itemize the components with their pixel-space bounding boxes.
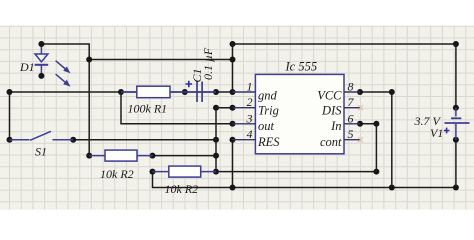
svg-text:Trig: Trig (258, 104, 279, 118)
svg-text:Ic 555: Ic 555 (285, 60, 318, 74)
no-connect mark pin 5 (358, 137, 363, 142)
IC right pin stubs 8-5 (344, 92, 360, 140)
wire: pin 6 In down to y=171.6 (357, 121, 379, 172)
wire: vertical x=232.5 from top rail to pin 1 (230, 44, 236, 92)
wire: pin 2 Trig stub wire (216, 105, 236, 111)
wire: pin 4 RES down to bottom rail (230, 137, 236, 188)
wire: battery bottom vertical (453, 137, 459, 188)
svg-text:6: 6 (348, 111, 354, 125)
svg-text:100k R1: 100k R1 (128, 102, 168, 116)
battery V1 plates (445, 108, 470, 140)
wire: left vertical x=9.5 down to S1 (7, 92, 13, 143)
svg-text:0.1 µF: 0.1 µF (201, 47, 215, 80)
capacitor C1 0.1uF (185, 82, 216, 103)
battery plus sign (444, 128, 450, 134)
svg-text:VCC: VCC (317, 89, 342, 103)
svg-text:RES: RES (257, 135, 280, 149)
diode D1 (LED) (35, 44, 49, 76)
switch S1 (10, 131, 74, 140)
C1 plus sign (186, 81, 193, 88)
svg-text:2: 2 (247, 95, 253, 109)
svg-text:10k R2: 10k R2 (165, 182, 199, 196)
svg-text:8: 8 (348, 80, 354, 94)
wire: vertical x=216 (trig net) (213, 105, 219, 175)
svg-text:V1: V1 (430, 126, 443, 140)
svg-text:5: 5 (348, 127, 354, 141)
wire: x=89.2 to pin-1 vertical at y=59.5 (86, 57, 232, 63)
svg-text:DIS: DIS (321, 104, 342, 118)
svg-text:3: 3 (246, 111, 253, 125)
wire: D1 anode top rail to R2a left (x=89.2 vertical) (41, 44, 92, 159)
op-amp/timer U1 Ic 555 body (255, 74, 344, 153)
wire: pin 3 out to node above R1 left (121, 92, 236, 127)
svg-text:D1: D1 (19, 60, 35, 74)
svg-text:7: 7 (348, 95, 355, 109)
svg-text:10k R2: 10k R2 (100, 167, 134, 181)
IC left pin stubs 1-4 (233, 92, 256, 140)
wire: R2a right to trig vertical (150, 153, 217, 159)
wire: S1 to trig vertical, y=139.7 (70, 137, 219, 143)
resistor R2 10k (lower) (153, 166, 217, 177)
resistor R2 10k (upper) (89, 150, 152, 161)
wire: pin 8 VCC to bottom rail (357, 89, 395, 188)
D1 light arrows (56, 61, 71, 87)
svg-text:1: 1 (247, 80, 253, 94)
svg-text:cont: cont (320, 135, 342, 149)
wire: main horizontal net y=92 (D1 cathode, R1, C1, pin 1) (7, 89, 236, 95)
svg-text:4: 4 (247, 127, 253, 141)
no-connect mark pin 7 (358, 105, 363, 110)
wire: top rail right segment to battery corner (230, 41, 459, 47)
wire: battery top vertical (453, 44, 459, 111)
wire: R2b right / trig to pin 6 vertical, y=171.6 (216, 169, 379, 175)
resistor R1 100k (121, 86, 185, 98)
svg-text:gnd: gnd (258, 89, 278, 103)
wire: R2b left down to bottom rail to battery minus (150, 169, 459, 191)
svg-text:In: In (330, 119, 341, 133)
svg-text:S1: S1 (35, 145, 47, 159)
svg-text:out: out (258, 119, 275, 133)
